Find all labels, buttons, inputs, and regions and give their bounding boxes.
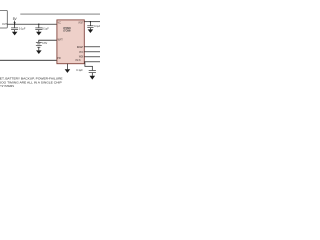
svg-text:0.1µF: 0.1µF (94, 24, 100, 28)
capacitor C1 (11, 24, 18, 32)
wire VOUT (84, 20, 100, 23)
regulator block U2 (cut off at left edge) (0, 10, 7, 28)
svg-text:LTC695: LTC695 (63, 30, 71, 32)
ground for IC (65, 69, 71, 73)
wire WDI (84, 55, 100, 58)
wire PFO (84, 50, 100, 53)
svg-text:V​CC: V​CC (58, 20, 61, 24)
supply label 5V (13, 17, 18, 24)
node junction B (38, 24, 39, 25)
svg-text:OUT: OUT (2, 22, 7, 26)
svg-text:0.1µF: 0.1µF (42, 26, 49, 30)
svg-text:3.6V: 3.6V (42, 41, 48, 45)
page rule (20, 14, 100, 15)
svg-text:PFI: PFI (57, 56, 61, 60)
svg-text:0.1µF: 0.1µF (19, 27, 26, 31)
capacitor C4 (89, 70, 96, 76)
wire OSC IN (84, 60, 100, 63)
svg-text:P SYSTEMS: P SYSTEMS (0, 84, 14, 88)
ground for C2 (36, 32, 42, 36)
ground for battery (36, 50, 42, 54)
wire PFI (cut off at left edge) (0, 59, 57, 62)
capacitor C3 (87, 22, 93, 30)
op-amp U1 LTC694/LTC695 supervisor IC (57, 20, 84, 64)
ground for C4 (90, 76, 96, 80)
wire VCC rail (7, 23, 57, 26)
wire RESET (84, 45, 100, 48)
capacitor C2 (35, 24, 42, 32)
svg-text:0.1µF: 0.1µF (76, 68, 83, 72)
svg-text:V​BATT: V​BATT (58, 37, 63, 41)
wire to C4 (85, 62, 93, 70)
svg-text:OSC IN: OSC IN (75, 58, 80, 62)
pin GND stub (66, 64, 69, 70)
svg-text:PFO: PFO (79, 50, 83, 54)
svg-text:5V: 5V (13, 17, 18, 21)
svg-text:RESET: RESET (77, 45, 83, 49)
svg-text:V​OUT: V​OUT (78, 20, 83, 24)
battery BT1 3.6V (36, 40, 42, 50)
node junction A (14, 24, 15, 25)
wire VBATT (39, 39, 57, 42)
node junction C (90, 21, 91, 22)
ground for C3 (88, 29, 94, 33)
ground for C1 (12, 32, 18, 36)
